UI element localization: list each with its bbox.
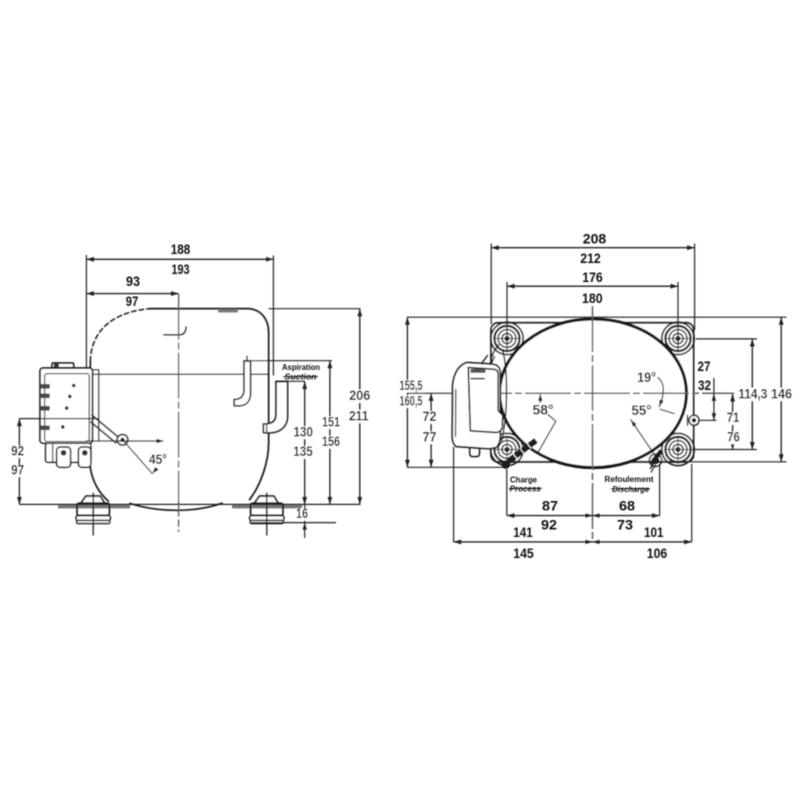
- svg-text:135: 135: [293, 443, 313, 459]
- svg-text:73: 73: [617, 516, 633, 532]
- svg-text:92: 92: [541, 516, 557, 532]
- svg-text:87: 87: [542, 498, 558, 514]
- svg-text:114,3: 114,3: [738, 385, 767, 401]
- svg-text:19°: 19°: [637, 369, 656, 385]
- svg-text:155,5: 155,5: [400, 377, 423, 393]
- svg-text:58°: 58°: [533, 402, 554, 418]
- svg-text:106: 106: [647, 545, 668, 561]
- svg-text:151: 151: [322, 413, 340, 429]
- svg-text:55°: 55°: [632, 402, 652, 418]
- svg-text:72: 72: [423, 408, 437, 424]
- svg-text:97: 97: [11, 461, 24, 477]
- svg-text:160,5: 160,5: [400, 392, 423, 408]
- svg-text:68: 68: [619, 498, 635, 514]
- svg-text:97: 97: [126, 293, 139, 309]
- svg-text:193: 193: [172, 261, 190, 277]
- svg-text:141: 141: [513, 524, 533, 540]
- svg-text:77: 77: [423, 428, 437, 444]
- svg-text:Process: Process: [510, 485, 542, 494]
- svg-text:16: 16: [296, 505, 308, 521]
- svg-text:206: 206: [349, 387, 370, 403]
- svg-text:146: 146: [771, 385, 792, 401]
- svg-text:Discharge: Discharge: [612, 485, 650, 494]
- svg-text:71: 71: [727, 409, 740, 425]
- svg-text:156: 156: [322, 433, 340, 449]
- svg-text:212: 212: [580, 250, 601, 266]
- svg-text:Charge: Charge: [510, 475, 538, 484]
- svg-text:27: 27: [698, 358, 711, 374]
- svg-text:208: 208: [583, 231, 607, 247]
- svg-text:Refoulement: Refoulement: [605, 475, 654, 484]
- svg-text:93: 93: [126, 273, 140, 289]
- svg-text:188: 188: [171, 241, 191, 257]
- svg-text:32: 32: [698, 377, 711, 393]
- svg-text:130: 130: [294, 423, 314, 439]
- svg-text:145: 145: [513, 545, 534, 561]
- svg-text:Aspiration: Aspiration: [282, 363, 320, 372]
- svg-text:45°: 45°: [149, 451, 167, 467]
- svg-text:101: 101: [644, 524, 664, 540]
- svg-text:211: 211: [349, 407, 369, 423]
- svg-text:176: 176: [582, 269, 603, 285]
- svg-text:76: 76: [727, 429, 740, 445]
- svg-text:92: 92: [11, 442, 24, 458]
- svg-text:180: 180: [582, 290, 603, 306]
